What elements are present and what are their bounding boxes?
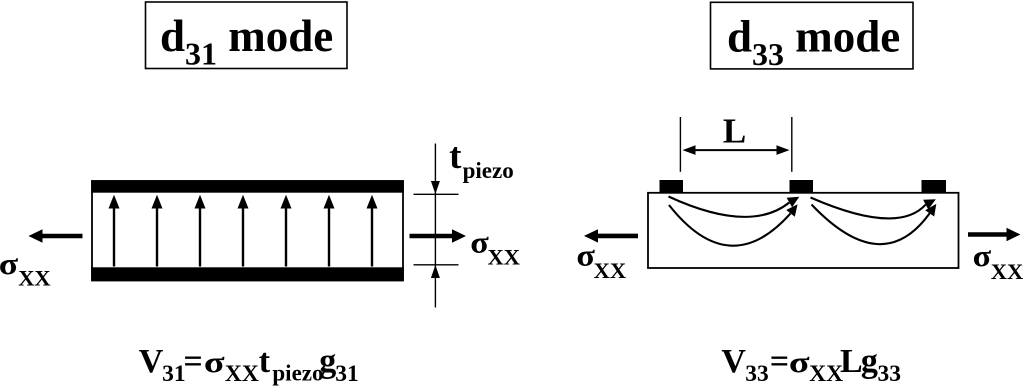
svg-text:=: = (770, 343, 789, 380)
L dimension left extension line (679, 117, 681, 172)
svg-text:XX: XX (225, 361, 259, 386)
field arrow 4 (238, 195, 249, 267)
field arrow 3 (195, 195, 206, 267)
field arrow 6 (324, 195, 335, 267)
svg-text:XX: XX (809, 361, 843, 386)
svg-text:XX: XX (18, 266, 51, 291)
svg-text:piezo: piezo (463, 158, 514, 183)
title box d33 mode (711, 2, 914, 69)
t_piezo dimension up arrowhead (431, 265, 440, 278)
L dimension double arrow (683, 145, 790, 155)
electrode 1 (right beam) (660, 180, 684, 193)
left stress arrow (right beam) (584, 229, 638, 242)
left beam bottom electrode bar (91, 267, 404, 281)
svg-text:σ: σ (789, 346, 810, 379)
svg-text:V: V (139, 343, 164, 380)
svg-text:σ: σ (576, 239, 595, 273)
electrode 2 (right beam) (790, 180, 814, 193)
svg-text:L: L (840, 343, 863, 380)
title box d31 mode (146, 2, 348, 69)
t_piezo dimension down arrowhead (431, 181, 440, 194)
svg-text:XX: XX (991, 259, 1024, 284)
equation V31 = sigma_xx t_piezo g31 (139, 343, 359, 386)
sigma_xx label right (right beam) (973, 239, 1024, 283)
field arrow 1 (109, 195, 120, 267)
t_piezo label (449, 136, 514, 183)
sigma_xx label left (right beam) (576, 239, 626, 283)
svg-text:t: t (449, 136, 462, 177)
curved arrow span1 deep (669, 204, 798, 245)
left beam top electrode bar (91, 180, 404, 192)
equation V33 = sigma_xx L g33 (721, 343, 901, 386)
right beam outline (648, 193, 959, 268)
curved arrow span2 shallow (811, 198, 936, 219)
t_piezo dimension top tick (414, 193, 459, 195)
svg-text:σ: σ (204, 346, 225, 379)
svg-text:31: 31 (162, 361, 186, 386)
svg-text:g: g (861, 343, 878, 380)
field arrow 2 (152, 195, 163, 267)
electrode 3 (right beam) (922, 180, 947, 193)
field arrow 7 (367, 195, 378, 267)
left stress arrow (left beam) (29, 229, 83, 242)
svg-text:XX: XX (488, 245, 521, 270)
curved arrow span1 shallow (669, 197, 800, 217)
svg-text:piezo: piezo (272, 360, 323, 385)
svg-text:33: 33 (745, 361, 769, 386)
svg-text:t: t (259, 343, 271, 380)
field arrow 5 (281, 195, 292, 267)
sigma_xx label right (left beam) (470, 226, 520, 270)
right stress arrow (right beam) (968, 228, 1021, 241)
svg-text:L: L (723, 112, 746, 151)
curved arrow span2 deep (812, 204, 937, 244)
sigma_xx label left (left beam) (0, 247, 51, 291)
svg-text:V: V (721, 343, 746, 380)
right stress arrow (left beam) (410, 229, 467, 242)
left beam outline (92, 181, 403, 281)
svg-text:σ: σ (470, 226, 489, 260)
svg-text:31: 31 (335, 361, 359, 386)
L dimension right extension line (791, 117, 793, 172)
svg-text:33: 33 (878, 361, 902, 386)
svg-text:σ: σ (973, 239, 992, 273)
t_piezo dimension vertical line (434, 144, 436, 308)
svg-text:XX: XX (594, 258, 627, 283)
svg-text:σ: σ (0, 247, 18, 281)
svg-text:=: = (183, 343, 202, 380)
t_piezo dimension bottom tick (414, 264, 459, 266)
svg-text:g: g (319, 343, 336, 380)
